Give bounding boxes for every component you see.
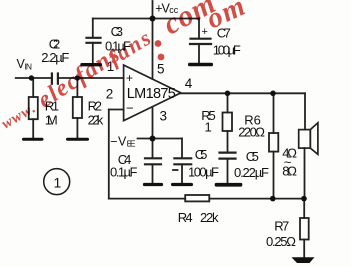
wire speaker branch: [304, 93, 306, 129]
node bottom/R7: [301, 196, 307, 202]
svg-text:R7: R7: [274, 219, 289, 234]
capacitor C2: [52, 74, 58, 84]
svg-text:0.25Ω: 0.25Ω: [266, 234, 296, 249]
resistor R7: [303, 199, 305, 218]
svg-text:100µF: 100µF: [213, 43, 241, 58]
svg-text:IN: IN: [25, 62, 33, 72]
speaker LS: [299, 130, 311, 149]
ground (R1): [22, 138, 44, 141]
wire input: [16, 77, 51, 79]
svg-text:2: 2: [106, 86, 114, 101]
wire C3 drop: [92, 19, 94, 38]
svg-text:22k: 22k: [88, 113, 104, 128]
svg-text:4: 4: [185, 76, 193, 91]
wire bottom feedback: [109, 198, 185, 200]
capacitor C3: [87, 38, 101, 43]
ground (C7): [188, 63, 213, 67]
svg-text:−V: −V: [110, 134, 127, 148]
svg-text:1: 1: [205, 119, 212, 134]
svg-text:R4: R4: [178, 210, 193, 225]
svg-text:5: 5: [157, 61, 165, 76]
svg-text:1M: 1M: [45, 113, 58, 128]
ground bars: [22, 63, 315, 263]
capacitor C5 100uF: [181, 139, 183, 159]
capacitor C4: [152, 139, 154, 159]
node -VEE/pin3: [150, 136, 156, 142]
svg-text:220Ω: 220Ω: [238, 125, 265, 140]
node +in/R2: [75, 75, 80, 80]
svg-text:C5: C5: [246, 149, 259, 164]
svg-text:0.22µF: 0.22µF: [234, 165, 269, 180]
wire top rail: [93, 18, 199, 20]
resistor R4: [185, 195, 209, 201]
wire -VEE rail: [138, 138, 183, 140]
resistor R5: [227, 93, 229, 112]
resistor R2: [76, 78, 78, 97]
node out/R5: [225, 91, 231, 97]
ground (C5 100uF): [171, 183, 193, 186]
svg-text:1: 1: [54, 175, 62, 191]
svg-text:+: +: [202, 26, 208, 38]
node bottom/R6: [270, 196, 276, 202]
wire output: [181, 92, 305, 94]
ground (C3): [80, 63, 102, 66]
watermark www.elecfans.com: [0, 0, 251, 132]
svg-text:−: −: [126, 100, 134, 115]
wire pin2: [109, 109, 124, 111]
svg-text:3: 3: [160, 109, 168, 124]
op-amp U1 triangle: [124, 65, 181, 121]
svg-text:0.1µF: 0.1µF: [110, 165, 138, 180]
svg-text:100µF: 100µF: [188, 164, 219, 179]
ground (R7): [292, 257, 315, 263]
capacitor C7: [190, 39, 211, 44]
svg-text:+: +: [126, 71, 133, 85]
wire pin3: [152, 107, 154, 139]
svg-text:LM1875: LM1875: [127, 86, 176, 102]
svg-text:EE: EE: [127, 138, 136, 148]
svg-text:8Ω: 8Ω: [282, 164, 297, 179]
node out/R6: [270, 91, 276, 97]
ground (C5 0.22uF): [215, 183, 243, 187]
node Vcc junction: [150, 16, 156, 22]
svg-text:22k: 22k: [200, 210, 219, 225]
ground (C4): [143, 183, 163, 186]
svg-text:2.2µF: 2.2µF: [41, 50, 69, 65]
wire C7 drop: [198, 19, 200, 39]
wire +Vcc vertical / pin 5: [152, 1, 154, 79]
svg-text:R2: R2: [88, 98, 102, 113]
figure number circle 1: [44, 169, 70, 195]
capacitor C5 0.22uF: [220, 153, 236, 159]
resistor R1: [32, 78, 34, 97]
ground (R2): [66, 138, 89, 141]
svg-text:C5: C5: [195, 147, 208, 162]
resistor R6: [273, 93, 275, 133]
svg-text:C3: C3: [111, 24, 123, 39]
node input/R1: [29, 75, 34, 80]
